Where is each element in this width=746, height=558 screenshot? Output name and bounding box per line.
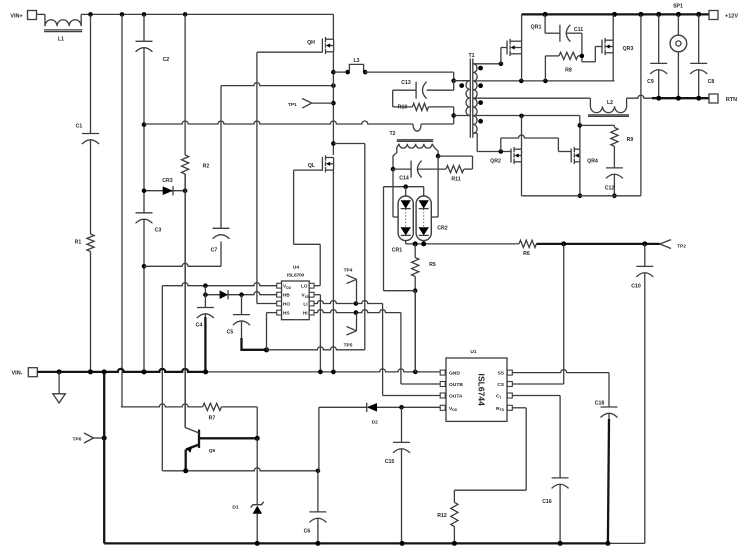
svg-text:R7: R7: [209, 415, 216, 421]
svg-text:QH: QH: [307, 40, 315, 46]
svg-text:CR1: CR1: [392, 248, 402, 254]
svg-text:R11: R11: [451, 176, 460, 182]
svg-text:C10: C10: [631, 284, 641, 290]
svg-text:C4: C4: [196, 323, 203, 329]
svg-text:CS: CS: [497, 382, 505, 388]
svg-text:L3: L3: [353, 58, 359, 64]
svg-text:QR2: QR2: [490, 159, 501, 165]
svg-text:HO: HO: [283, 302, 290, 307]
svg-text:C9: C9: [647, 79, 654, 85]
svg-text:QR1: QR1: [531, 25, 542, 31]
svg-text:C11: C11: [574, 27, 583, 33]
svg-text:LI: LI: [303, 302, 307, 307]
svg-text:R6: R6: [523, 251, 530, 257]
svg-text:L2: L2: [607, 100, 613, 106]
svg-text:R12: R12: [437, 513, 447, 519]
svg-text:C15: C15: [385, 459, 395, 465]
svg-text:TP6: TP6: [73, 437, 82, 443]
svg-text:R2: R2: [203, 164, 210, 170]
svg-text:C5: C5: [227, 330, 234, 336]
svg-text:VIN+: VIN+: [10, 14, 22, 20]
svg-text:HS: HS: [283, 311, 290, 316]
svg-text:Q5: Q5: [209, 448, 216, 454]
svg-text:C8: C8: [708, 79, 715, 85]
svg-text:U1: U1: [470, 349, 476, 355]
svg-text:R9: R9: [627, 137, 634, 143]
svg-text:T1: T1: [468, 53, 474, 59]
svg-text:R8: R8: [565, 68, 572, 74]
svg-text:C6: C6: [304, 529, 311, 535]
svg-text:C18: C18: [595, 401, 605, 407]
svg-text:C12: C12: [605, 186, 615, 192]
svg-text:C2: C2: [163, 57, 170, 63]
svg-text:R1: R1: [75, 240, 82, 246]
svg-text:LO: LO: [301, 284, 308, 289]
svg-text:+12V: +12V: [725, 14, 738, 20]
svg-text:ISL6744: ISL6744: [477, 374, 487, 407]
svg-text:U4: U4: [293, 264, 299, 270]
svg-text:QR4: QR4: [587, 159, 598, 165]
svg-text:CR3: CR3: [162, 178, 172, 184]
svg-text:VIN-: VIN-: [12, 371, 23, 377]
svg-text:C7: C7: [211, 248, 218, 254]
svg-text:TP4: TP4: [344, 267, 353, 273]
svg-text:TP1: TP1: [288, 102, 297, 108]
svg-text:D1: D1: [232, 505, 238, 511]
svg-text:OUTB: OUTB: [449, 382, 463, 388]
svg-text:R5: R5: [429, 262, 436, 268]
svg-text:RTN: RTN: [726, 97, 737, 103]
svg-text:L1: L1: [58, 37, 64, 43]
svg-text:R10: R10: [398, 104, 408, 110]
svg-text:SS: SS: [497, 371, 504, 377]
svg-text:GND: GND: [449, 371, 460, 377]
svg-text:ISL6700: ISL6700: [287, 272, 305, 278]
svg-text:OUTA: OUTA: [449, 394, 463, 400]
svg-text:QL: QL: [308, 163, 316, 169]
svg-text:C13: C13: [401, 80, 411, 86]
svg-text:C1: C1: [76, 124, 83, 130]
svg-text:HI: HI: [303, 311, 308, 316]
svg-text:CR2: CR2: [437, 226, 447, 232]
svg-text:C3: C3: [155, 228, 162, 234]
svg-text:TP2: TP2: [677, 243, 686, 249]
svg-text:TP5: TP5: [344, 343, 353, 349]
svg-text:T2: T2: [389, 131, 395, 137]
svg-text:HB: HB: [283, 293, 290, 298]
svg-text:C14: C14: [399, 176, 409, 182]
svg-text:QR3: QR3: [623, 46, 634, 52]
svg-text:D2: D2: [372, 420, 378, 426]
svg-text:SP1: SP1: [673, 4, 683, 10]
svg-text:C16: C16: [542, 499, 552, 505]
